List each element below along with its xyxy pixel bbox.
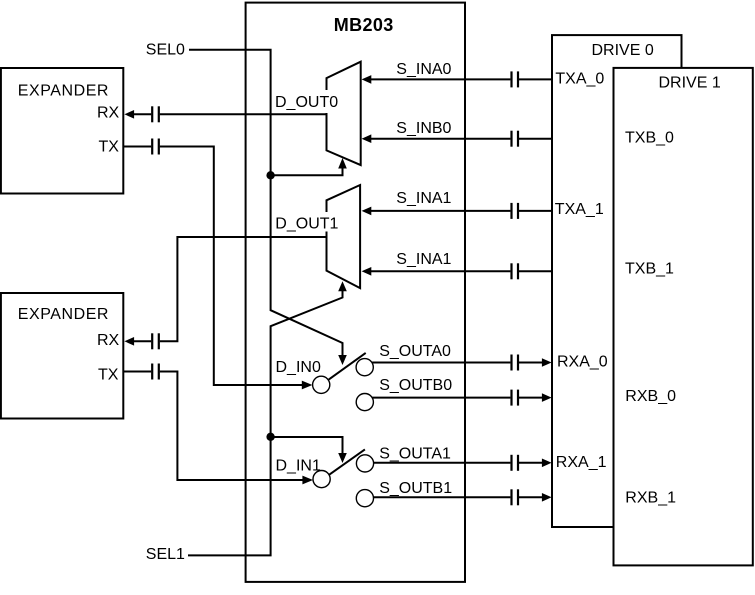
arrowhead D_IN1 input (302, 476, 313, 485)
svg-text:S_OUTB0: S_OUTB0 (379, 377, 452, 394)
switch lever SW1 (329, 353, 366, 380)
block DRIVE 1 (614, 68, 753, 566)
arrowhead S_INA0 (362, 75, 372, 84)
svg-text:D_OUT0: D_OUT0 (275, 94, 338, 111)
wire RX2 / D_OUT1 (134, 340, 152, 342)
svg-text:TX: TX (98, 366, 119, 383)
block EXPANDER (top) (1, 68, 123, 194)
wire S_INA0 / TXA_0 (371, 78, 511, 80)
capacitor C7 (510, 203, 512, 219)
block EXPANDER (bottom) (1, 293, 123, 419)
svg-text:RX: RX (97, 332, 120, 349)
capacitor C1 (RX1) (151, 106, 153, 122)
wire S_OUTB0 / RXB_0 (371, 397, 510, 399)
arrowhead S_INA1(2) (362, 267, 372, 276)
svg-text:D_OUT1: D_OUT1 (275, 215, 338, 232)
svg-text:TXA_0: TXA_0 (555, 70, 604, 87)
arrowhead RXA_1 (542, 459, 552, 468)
arrowhead switch2 control (down) (338, 453, 347, 463)
svg-text:S_OUTA1: S_OUTA1 (379, 446, 451, 463)
svg-text:MB203: MB203 (334, 15, 394, 35)
svg-text:DRIVE 1: DRIVE 1 (659, 75, 721, 92)
arrowhead RXA_0 (542, 358, 552, 367)
contact S_OUTA0 (356, 359, 373, 376)
wire S_INA1(2) / TXB_1 (371, 270, 511, 272)
arrowhead D_IN0 input (302, 381, 313, 390)
contact S_OUTB1 (356, 490, 373, 507)
arrowhead S_INB0 (362, 134, 372, 143)
wire S_OUTB1 / RXB_1 (371, 496, 510, 498)
arrowhead select mux2 (up) (338, 281, 347, 291)
capacitor C6 (510, 131, 512, 147)
junction node B (266, 433, 274, 441)
contact S_OUTA1 (356, 455, 373, 472)
contact D_IN0 (313, 376, 330, 393)
label mask D_OUT1 (273, 212, 340, 232)
wire SEL1 (188, 291, 343, 555)
wire switch2 control from node B (271, 437, 343, 454)
svg-text:EXPANDER: EXPANDER (18, 306, 109, 323)
svg-text:D_IN1: D_IN1 (276, 458, 321, 475)
junction node A (266, 171, 274, 179)
mux U2 D_OUT1 (327, 185, 361, 288)
wire S_INA1 / TXA_1 (371, 210, 511, 212)
svg-text:RXA_0: RXA_0 (557, 354, 608, 371)
svg-text:S_INB0: S_INB0 (396, 120, 451, 137)
capacitor C3 (RX2) (151, 333, 153, 349)
arrowhead switch1 control (down) (338, 355, 347, 365)
svg-text:S_INA0: S_INA0 (396, 61, 451, 78)
capacitor C12 (510, 489, 512, 505)
capacitor C8 (510, 263, 512, 279)
svg-text:S_OUTB1: S_OUTB1 (379, 480, 452, 497)
svg-text:D_IN0: D_IN0 (276, 359, 321, 376)
wire SEL0 (189, 50, 343, 356)
wire S_OUTA0 / RXA_0 (371, 362, 510, 364)
arrowhead S_INA1 (362, 207, 372, 216)
svg-text:TXA_1: TXA_1 (555, 201, 604, 218)
block MB203 (246, 3, 465, 582)
svg-text:RXB_1: RXB_1 (625, 490, 676, 507)
svg-text:RXA_1: RXA_1 (556, 454, 607, 471)
arrowhead RXB_1 (542, 493, 552, 502)
wire S_INB0 / TXB_0 (371, 138, 511, 140)
svg-text:S_OUTA0: S_OUTA0 (379, 343, 451, 360)
capacitor C11 (510, 455, 512, 471)
svg-text:TXB_0: TXB_0 (625, 129, 674, 146)
svg-text:RXB_0: RXB_0 (625, 388, 676, 405)
svg-text:SEL0: SEL0 (146, 41, 185, 58)
capacitor C5 (510, 71, 512, 87)
block DRIVE 0 (552, 35, 682, 527)
capacitor C4 (TX2) (151, 364, 153, 380)
arrowhead RX2 (124, 337, 134, 346)
svg-text:TXB_1: TXB_1 (625, 261, 674, 278)
svg-text:S_INA1: S_INA1 (396, 190, 451, 207)
svg-text:DRIVE 0: DRIVE 0 (592, 42, 654, 59)
wire S_OUTA1 / RXA_1 (371, 462, 510, 464)
arrowhead select mux1 (up) (338, 158, 347, 169)
capacitor C9 (510, 355, 512, 371)
wire select mux1 from node A (271, 168, 343, 175)
contact S_OUTB0 (356, 394, 373, 411)
arrowhead RXB_0 (542, 393, 552, 402)
wire TX1 to D_IN0 (123, 146, 151, 148)
svg-text:EXPANDER: EXPANDER (18, 82, 109, 99)
contact D_IN1 (313, 471, 330, 488)
wire RX1 / D_OUT0 (134, 113, 152, 115)
svg-text:SEL1: SEL1 (146, 546, 185, 563)
capacitor C2 (TX1) (151, 139, 153, 155)
svg-text:S_INA1: S_INA1 (396, 251, 451, 268)
mux U1 D_OUT0 (327, 62, 361, 165)
label mask D_OUT0 (273, 90, 340, 113)
svg-text:RX: RX (97, 105, 120, 122)
switch lever SW2 (329, 449, 365, 475)
wire TX2 to D_IN1 (123, 371, 151, 373)
arrowhead RX1 (124, 110, 134, 119)
capacitor C10 (510, 390, 512, 406)
svg-text:TX: TX (99, 138, 120, 155)
